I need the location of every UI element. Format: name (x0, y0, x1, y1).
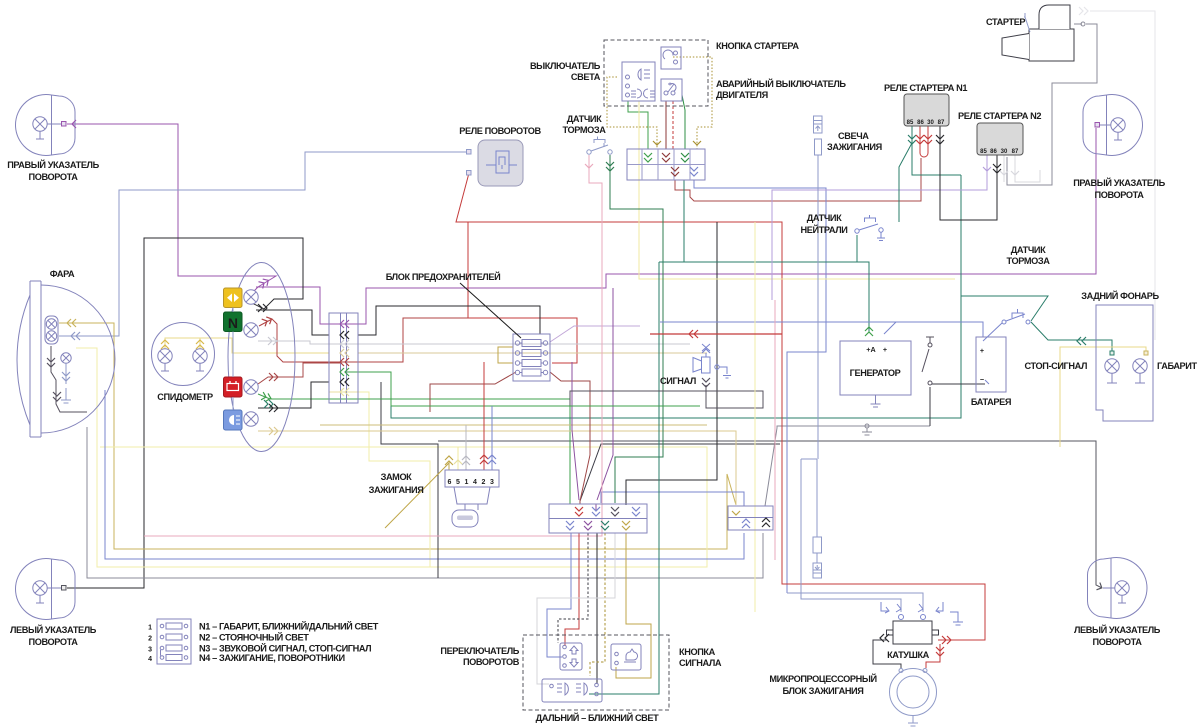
svg-text:85: 85 (980, 149, 987, 155)
wire red killswitch down (672, 101, 674, 149)
svg-text:ПОВОРОТОВ: ПОВОРОТОВ (463, 657, 520, 667)
wire paleyellow ignition pin5 (457, 447, 459, 470)
wire khaki block to horn button (616, 533, 651, 678)
CDI ring (890, 669, 937, 727)
left front turn indicator housing (bottom left) (15, 558, 75, 619)
svg-text:СИГНАЛА: СИГНАЛА (679, 658, 722, 668)
wire red strip row (358, 361, 403, 363)
svg-text:87: 87 (938, 120, 945, 126)
wire lightgray strip row (258, 341, 690, 344)
svg-text:2: 2 (482, 479, 486, 486)
coil arrows (880, 634, 889, 642)
relay N1 pin arrows (908, 135, 916, 144)
wire green battery lamp to block (258, 394, 570, 504)
wire red branch to fuse (468, 222, 577, 363)
turn relay (467, 140, 524, 186)
svg-text:3: 3 (490, 479, 494, 486)
svg-text:ФАРА: ФАРА (50, 269, 75, 279)
svg-text:ЗАЖИГАНИЯ: ЗАЖИГАНИЯ (827, 142, 882, 152)
svg-text:85: 85 (907, 120, 914, 126)
svg-text:+: + (980, 346, 984, 355)
svg-text:ДАЛЬНИЙ – БЛИЖНИЙ СВЕТ: ДАЛЬНИЙ – БЛИЖНИЙ СВЕТ (536, 712, 660, 723)
svg-text:4: 4 (473, 479, 477, 486)
svg-text:ПЕРЕКЛЮЧАТЕЛЬ: ПЕРЕКЛЮЧАТЕЛЬ (440, 646, 519, 656)
legend connector box (157, 619, 191, 664)
right front turn indicator housing (15, 94, 75, 155)
wire paleyellow center band (754, 222, 756, 612)
fuse box (513, 334, 550, 381)
wire teal relay1 to teal bus (912, 143, 961, 175)
arrow cluster gray (268, 337, 277, 345)
fuse box callout line (460, 283, 521, 338)
wire blue connector1 to right block (694, 180, 826, 593)
svg-text:ГЕНЕРАТОР: ГЕНЕРАТОР (850, 368, 901, 378)
svg-text:СВЕЧА: СВЕЧА (838, 131, 869, 141)
horn ground (715, 365, 731, 378)
svg-text:1: 1 (465, 479, 469, 486)
rear lamp housing (1096, 305, 1153, 421)
wire black diag into block (580, 444, 780, 501)
horn arrows (702, 349, 710, 353)
svg-text:РЕЛЕ СТАРТЕРА N1: РЕЛЕ СТАРТЕРА N1 (884, 83, 967, 93)
svg-text:86: 86 (990, 149, 997, 155)
starter faint arrow (1079, 7, 1088, 15)
wire gray rear ground run (765, 426, 930, 506)
wire maroon killswitch to relay N1 (675, 158, 921, 201)
svg-text:КНОПКА: КНОПКА (679, 647, 716, 657)
beam switch unit (542, 679, 602, 702)
wire red coil down to ring (926, 644, 940, 668)
wire black block to beamswitch (596, 533, 598, 684)
svg-text:+: + (883, 345, 887, 354)
wire pale-yellow ignition feed (100, 447, 707, 567)
starter relay N1 (904, 94, 949, 126)
brake sensor front switch (587, 137, 612, 155)
wire maroon killswitch down (665, 101, 667, 149)
wire black indicator loop (67, 238, 303, 588)
connector block center top (627, 149, 705, 180)
wire darkgray rear indicator run (438, 441, 1102, 588)
indicator lamp battery (244, 380, 258, 394)
svg-text:6: 6 (448, 479, 452, 486)
connector strip vertical (329, 313, 358, 403)
indicator icon beam (blue) (224, 410, 243, 430)
svg-text:N4 – ЗАЖИГАНИЕ, ПОВОРОТНИКИ: N4 – ЗАЖИГАНИЕ, ПОВОРОТНИКИ (199, 653, 345, 663)
wire maroon battery lamp to strip (258, 363, 340, 384)
battery switch (922, 337, 934, 385)
svg-text:86: 86 (917, 120, 924, 126)
arrow cluster teal (264, 400, 273, 408)
indicator icon neutral (green N) (224, 312, 243, 332)
arrow cluster black turn (258, 304, 267, 312)
arrow headlight blue (71, 332, 80, 340)
wire paleyellow center vertical (639, 101, 955, 279)
generator box (840, 341, 911, 407)
right handlebar connector block (728, 506, 773, 530)
svg-text:5: 5 (456, 479, 460, 486)
wire paleyellow strip row (329, 391, 358, 393)
rear brake switch (1002, 309, 1030, 324)
starter button unit (661, 47, 681, 69)
svg-text:N3 – ЗВУКОВОЙ СИГНАЛ, СТОП-СИГ: N3 – ЗВУКОВОЙ СИГНАЛ, СТОП-СИГНАЛ (199, 643, 371, 654)
relay N2 pin arrows (983, 167, 991, 171)
svg-text:−: − (980, 375, 984, 384)
wire purple short diag to block (572, 362, 579, 500)
svg-text:АВАРИЙНЫЙ ВЫКЛЮЧАТЕЛЬ: АВАРИЙНЫЙ ВЫКЛЮЧАТЕЛЬ (716, 78, 846, 89)
svg-text:СТОП-СИГНАЛ: СТОП-СИГНАЛ (1025, 361, 1087, 371)
arrow cluster black beam (269, 404, 278, 412)
ignition coil (881, 602, 963, 644)
wire pink center vertical (774, 300, 776, 560)
wire teal stop signal to rear (961, 296, 1112, 353)
wire red block to switch (565, 533, 579, 646)
top dashed enclosure (604, 40, 708, 106)
wire black coil to ring (873, 640, 901, 668)
spark plug symbol (814, 116, 823, 155)
starter relay N2 (977, 123, 1023, 155)
spark plug cap bottom (813, 537, 822, 578)
wire teal neutral sensor branch (856, 235, 858, 262)
svg-text:ДВИГАТЕЛЯ: ДВИГАТЕЛЯ (716, 90, 768, 100)
svg-text:ТОРМОЗА: ТОРМОЗА (563, 125, 607, 135)
svg-text:БЛОК ПРЕДОХРАНИТЕЛЕЙ: БЛОК ПРЕДОХРАНИТЕЛЕЙ (386, 271, 501, 282)
wire yellow speedometer lamps (165, 338, 329, 353)
indicator lamp turn (244, 290, 258, 304)
ground near generator (862, 424, 872, 435)
left rear turn indicator housing (bottom right) (1088, 558, 1147, 619)
wire blue generator left (660, 321, 896, 323)
cluster icon links (232, 308, 234, 411)
wire khaki ignition diag (385, 463, 449, 528)
strip arrows (340, 320, 349, 328)
svg-text:30: 30 (1001, 149, 1008, 155)
wire teal to beam switch (589, 262, 659, 694)
svg-text:N1 – ГАБАРИТ, БЛИЖНИЙ/ДАЛЬНИЙ: N1 – ГАБАРИТ, БЛИЖНИЙ/ДАЛЬНИЙ СВЕТ (199, 621, 379, 632)
ignition lock arrows (445, 456, 453, 465)
svg-text:РЕЛЕ СТАРТЕРА N2: РЕЛЕ СТАРТЕРА N2 (958, 111, 1041, 121)
wire black dotted to switch (558, 533, 588, 643)
wire purple lavender relay2 row (772, 155, 987, 300)
svg-text:N2 – СТОЯНОЧНЫЙ СВЕТ: N2 – СТОЯНОЧНЫЙ СВЕТ (199, 632, 309, 643)
wire green strip row to teal run (345, 372, 391, 406)
wire green lightswitch to connector1 (628, 101, 648, 149)
bottom dashed enclosure (523, 635, 669, 710)
svg-text:НЕЙТРАЛИ: НЕЙТРАЛИ (801, 224, 848, 235)
neutral sensor switch (855, 215, 885, 241)
wire lavender fuse1 out (550, 326, 640, 342)
wire gray block to beamswitch (537, 533, 615, 684)
svg-text:ПРАВЫЙ УКАЗАТЕЛЬ: ПРАВЫЙ УКАЗАТЕЛЬ (1073, 177, 1165, 188)
svg-text:ПОВОРОТА: ПОВОРОТА (29, 172, 79, 182)
wire blue-gray relay turn to headlight (59, 152, 469, 336)
wire teal relay1 down (899, 126, 912, 222)
battery box (976, 323, 1006, 392)
svg-text:1: 1 (148, 625, 152, 632)
wire red relay1 U loop (920, 126, 928, 157)
wire purple center to block (597, 288, 613, 500)
connector1 arrows (644, 153, 652, 162)
wire red cluster N-lamp to strip (259, 318, 468, 362)
light switch unit (622, 62, 655, 101)
wire blue HT lead (801, 155, 901, 612)
svg-text:ДАТЧИК: ДАТЧИК (1011, 245, 1046, 255)
wire lightgray starter faint (1090, 11, 1155, 340)
arrow headlight yellow (67, 319, 76, 327)
arrow cluster green (261, 392, 272, 402)
left handlebar connector block (549, 504, 647, 533)
wire blue bottom run (105, 390, 744, 559)
svg-text:ЛЕВЫЙ УКАЗАТЕЛЬ: ЛЕВЫЙ УКАЗАТЕЛЬ (1074, 624, 1161, 635)
svg-text:4: 4 (148, 656, 152, 663)
wire black battery switch down (929, 387, 931, 426)
svg-text:КНОПКА СТАРТЕРА: КНОПКА СТАРТЕРА (716, 41, 799, 51)
arrow cluster red (262, 315, 274, 326)
svg-text:30: 30 (927, 120, 934, 126)
svg-text:3: 3 (148, 647, 152, 654)
svg-text:87: 87 (1012, 149, 1019, 155)
indicator icon turn (yellow) (224, 288, 243, 308)
wire tan beam lamp long (258, 431, 736, 505)
turn switch unit (560, 643, 582, 670)
wire blue ignition pin3 (491, 406, 493, 470)
wire green kill to connector (682, 95, 685, 149)
svg-text:ТОРМОЗА: ТОРМОЗА (1007, 256, 1051, 266)
wire maroon fuse4 left (430, 372, 516, 412)
svg-text:КАТУШКА: КАТУШКА (887, 650, 930, 660)
wire yellow headlight hi-beam (59, 323, 736, 549)
wire darkslate horn bottom run (570, 385, 763, 408)
svg-text:ДАТЧИК: ДАТЧИК (567, 114, 602, 124)
svg-text:БАТАРЕЯ: БАТАРЕЯ (971, 397, 1011, 407)
wire maroon fuse4 to block (550, 372, 590, 504)
svg-text:ГАБАРИТ: ГАБАРИТ (1157, 361, 1197, 371)
svg-text:МИКРОПРОЦЕССОРНЫЙ: МИКРОПРОЦЕССОРНЫЙ (769, 673, 876, 684)
svg-text:ПОВОРОТА: ПОВОРОТА (1093, 637, 1143, 647)
svg-text:СПИДОМЕТР: СПИДОМЕТР (157, 392, 213, 402)
wire tan strip row (358, 352, 707, 354)
left block arrows bottom row (566, 521, 574, 530)
wire purple block top feed (595, 504, 597, 510)
wire red turn relay long (456, 173, 782, 334)
wire khaki fuse left loop (498, 347, 513, 363)
svg-text:ПРАВЫЙ УКАЗАТЕЛЬ: ПРАВЫЙ УКАЗАТЕЛЬ (7, 159, 99, 170)
svg-text:ПОВОРОТА: ПОВОРОТА (29, 637, 79, 647)
indicator lamp neutral (244, 323, 258, 337)
wire lightgray relay2 pins (1004, 155, 1040, 182)
svg-text:ЛЕВЫЙ УКАЗАТЕЛЬ: ЛЕВЫЙ УКАЗАТЕЛЬ (10, 624, 97, 635)
wire green brake sensor to block (610, 155, 663, 503)
svg-text:ЗАМОК: ЗАМОК (381, 472, 413, 482)
wire teal long bottom run (683, 180, 685, 262)
wire khaki dotted starter button (673, 57, 712, 149)
indicator lamp beam (244, 412, 258, 426)
wire yellow gabarit (1060, 347, 1146, 447)
arrows headlight main down (47, 358, 55, 367)
indicator icon battery (red) (224, 377, 243, 397)
wire khaki dotted lightswitch (607, 77, 657, 149)
wire black battery minus (932, 383, 985, 385)
red main line arrow (689, 330, 698, 338)
svg-text:N: N (228, 315, 238, 331)
wire gray starter to relay2 (1007, 24, 1097, 185)
arrow into right front indicator (72, 120, 76, 128)
wire blue block to switch (547, 533, 571, 657)
left block arrows top row (575, 507, 583, 516)
wire khaki mid horizontal (320, 424, 707, 426)
wire purple cluster lamp to connector strip (256, 128, 1096, 324)
horn button unit (611, 644, 641, 670)
generator green arrow (865, 327, 873, 336)
wire black cluster turnrow2 (256, 310, 329, 335)
right block arrows (732, 511, 740, 515)
arrow parking lamp down (62, 372, 70, 381)
wire gray headlight ground run (87, 427, 763, 578)
starter motor (1002, 5, 1085, 61)
wire red main down right (782, 334, 985, 640)
wire black cluster beam row (258, 382, 329, 408)
engine kill switch unit (661, 79, 682, 101)
arrow cluster tan (269, 427, 278, 435)
svg-text:ЗАДНИЙ ФОНАРЬ: ЗАДНИЙ ФОНАРЬ (1081, 290, 1159, 301)
wire black rear long run (381, 382, 438, 578)
headlight housing (17, 281, 115, 437)
svg-text:ВЫКЛЮЧАТЕЛЬ: ВЫКЛЮЧАТЕЛЬ (530, 61, 601, 71)
wire black relay1 87 down (940, 126, 997, 220)
arrows speedometer up (161, 340, 169, 349)
wire blue interblock (601, 492, 744, 506)
wire green center run (391, 405, 700, 407)
wire black strip row to center (358, 306, 540, 335)
wire dark headlight low beam down (51, 346, 87, 412)
right rear turn indicator housing (top right) (1083, 94, 1143, 155)
instrument cluster capsule (228, 263, 295, 452)
svg-text:БЛОК ЗАЖИГАНИЯ: БЛОК ЗАЖИГАНИЯ (783, 686, 864, 696)
wire teal bus horizontal (659, 262, 869, 332)
svg-text:ДАТЧИК: ДАТЧИК (807, 213, 842, 223)
svg-text:СИГНАЛ: СИГНАЛ (660, 376, 696, 386)
svg-text:ПОВОРОТА: ПОВОРОТА (1095, 190, 1145, 200)
rear right indicator arrowhead (1096, 583, 1103, 592)
brake sensor arrows (585, 164, 593, 168)
wire gray ignition pin1 (465, 425, 467, 470)
svg-text:СВЕТА: СВЕТА (571, 72, 601, 82)
wire purple right-front indicator to cluster (67, 124, 276, 293)
svg-text:+A: +A (866, 345, 875, 354)
speedometer (152, 323, 215, 386)
wire khaki dashed block down (590, 533, 605, 676)
wire pink brake sensor long (144, 155, 602, 536)
svg-text:СТАРТЕР: СТАРТЕР (986, 17, 1025, 27)
rear teal arrows (1077, 337, 1086, 345)
arrows placeholder (47, 7, 1104, 656)
horn symbol (693, 344, 710, 373)
wire black connector1 to left block (626, 222, 717, 505)
wire blue generator to battery (884, 322, 983, 337)
wire teal relay bus long (391, 175, 961, 418)
ignition lock (445, 470, 499, 527)
svg-text:2: 2 (148, 636, 152, 643)
svg-text:РЕЛЕ ПОВОРОТОВ: РЕЛЕ ПОВОРОТОВ (459, 126, 541, 136)
svg-text:ЗАЖИГАНИЯ: ЗАЖИГАНИЯ (369, 485, 424, 495)
wire blue coil second (787, 593, 923, 612)
arrow cluster purple (258, 277, 270, 289)
wire pale-yellow parking lamp loop (76, 348, 430, 567)
wire red ignition pin2 (483, 362, 485, 470)
